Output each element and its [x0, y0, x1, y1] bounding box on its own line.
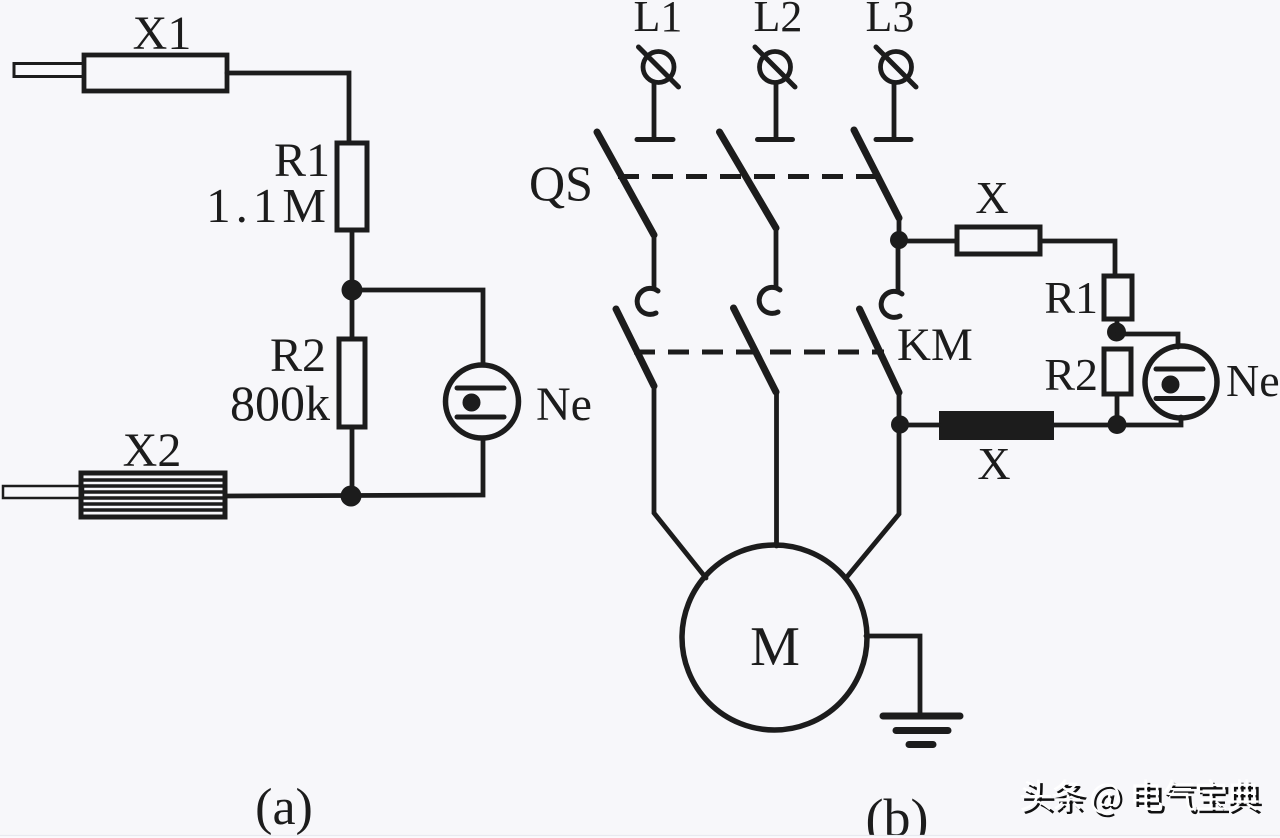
wire motor to ground — [866, 636, 920, 716]
junction node B — [341, 486, 362, 507]
wire node A to Ne top — [352, 290, 483, 365]
probe tip X1 — [14, 64, 84, 77]
resistor R2 — [339, 339, 365, 427]
neon lamp Ne (a) — [446, 365, 519, 438]
svg-text:(a): (a) — [255, 779, 313, 836]
svg-text:Ne: Ne — [1226, 355, 1280, 406]
wire KM pole2 to motor — [774, 392, 779, 546]
resistor R1 (b) — [1104, 276, 1132, 319]
ground — [883, 716, 960, 745]
wire R2 to node F — [1115, 394, 1120, 424]
svg-text:L2: L2 — [754, 0, 803, 41]
probe X lower (filled) — [939, 411, 1054, 440]
contactor KM pole 3 blade — [860, 309, 900, 393]
svg-text:1.1M: 1.1M — [206, 178, 331, 233]
QS linkage (dashed) — [618, 174, 882, 179]
neon lamp Ne (b) — [1145, 346, 1217, 418]
svg-text:X: X — [975, 172, 1008, 223]
wire X1 to R1 — [227, 73, 349, 143]
wire L1 to QS — [652, 83, 657, 139]
terminal L1 — [639, 47, 679, 87]
switch QS pole 1 blade — [597, 132, 654, 235]
svg-text:L1: L1 — [634, 0, 683, 41]
svg-text:800k: 800k — [230, 375, 330, 431]
wire KM pole3 to node D — [897, 393, 902, 425]
svg-text:L3: L3 — [866, 0, 915, 41]
junction node C — [890, 231, 908, 249]
switch QS pole 2 blade — [720, 132, 777, 228]
KM fixed contact hook pole 2 — [759, 287, 780, 313]
watermark text — [1021, 779, 1259, 814]
QS fixed contact bar pole 2 — [758, 137, 793, 142]
wire QS pole3 to node C — [897, 218, 902, 240]
probe X upper — [957, 227, 1040, 254]
wire node C to X upper — [899, 239, 955, 244]
wire node D to motor — [846, 425, 899, 579]
KM fixed contact hook pole 1 — [637, 288, 658, 314]
svg-text:M: M — [750, 616, 800, 678]
contactor KM pole 2 blade — [734, 308, 777, 392]
svg-text:R2: R2 — [1044, 349, 1098, 400]
junction node E — [1107, 323, 1126, 342]
svg-text:QS: QS — [529, 155, 593, 211]
junction node F — [1108, 415, 1127, 434]
QS fixed contact bar pole 3 — [876, 137, 911, 142]
probe body X2 (hatched) — [81, 473, 225, 517]
terminal L2 — [755, 47, 795, 87]
wire R1 to node A — [350, 230, 355, 290]
svg-text:Ne: Ne — [536, 378, 592, 431]
svg-text:X2: X2 — [123, 424, 182, 477]
terminal L3 — [876, 47, 916, 87]
KM linkage (dashed) — [634, 350, 884, 355]
wire node D to X lower to node F to Ne bottom — [900, 417, 1181, 425]
wire QS pole2 to KM contact — [774, 228, 779, 287]
resistor R2 (b) — [1104, 349, 1131, 394]
svg-text:X: X — [977, 438, 1010, 489]
wire node E to Ne top — [1117, 334, 1178, 347]
wire QS pole1 to KM contact — [652, 235, 657, 288]
wire L3 to QS — [892, 83, 897, 139]
wire node C to KM contact — [896, 240, 901, 292]
wire X2 to node B to Ne bottom — [225, 438, 483, 496]
KM fixed contact hook pole 3 — [881, 291, 902, 317]
svg-text:X1: X1 — [133, 7, 192, 60]
svg-text:R1: R1 — [1044, 272, 1098, 323]
wire X upper to R1 — [1042, 241, 1115, 276]
probe body X1 — [84, 55, 227, 91]
contactor KM pole 1 blade — [616, 309, 654, 386]
resistor R1 — [337, 143, 367, 230]
wire R2 to node B — [350, 427, 355, 496]
wire KM pole1 to motor — [654, 386, 706, 578]
svg-text:KM: KM — [897, 319, 973, 371]
watermark shadow — [1024, 783, 1262, 818]
junction node D — [891, 416, 909, 434]
junction node A — [342, 280, 363, 301]
probe tip X2 — [3, 486, 83, 498]
wire L2 to QS — [774, 83, 779, 139]
wire R1 to node E — [1115, 319, 1120, 332]
wire node A to R2 — [350, 290, 355, 339]
switch QS pole 3 blade — [854, 130, 899, 218]
QS fixed contact bar pole 1 — [637, 137, 673, 142]
motor M — [682, 545, 867, 730]
svg-text:(b): (b) — [866, 788, 929, 838]
